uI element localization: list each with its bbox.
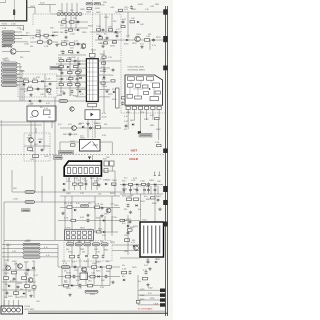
wire (71, 3, 73, 13)
wire (2, 269, 36, 271)
resistor R832 (67, 60, 72, 62)
resistor R814 (104, 42, 108, 44)
wire (15, 35, 59, 37)
input pin label 5 (2, 44, 12, 46)
wire (0, 121, 55, 123)
svg-text:0.01: 0.01 (84, 272, 88, 274)
wire (56, 75, 86, 77)
resistor R833 (59, 66, 64, 68)
yoke label DY (13, 10, 15, 16)
wire (85, 176, 87, 190)
svg-text:0.22: 0.22 (144, 265, 148, 267)
transistor Q805 (134, 246, 139, 251)
wire (57, 245, 59, 267)
svg-text:R402: R402 (52, 32, 57, 34)
board pin right 1 (163, 186, 167, 192)
svg-text:COLD: COLD (129, 157, 139, 161)
wire (39, 30, 41, 44)
bottom bus wire (28, 310, 166, 312)
wire (69, 57, 71, 96)
svg-text:C115: C115 (80, 48, 84, 50)
resistor R808 (70, 43, 75, 45)
resistor R802 (44, 34, 48, 37)
resistor R853 (71, 144, 76, 146)
wire (154, 194, 156, 222)
svg-text:IC601: IC601 (65, 228, 71, 230)
wire (50, 13, 57, 15)
wire (15, 34, 29, 36)
resistor R895 (4, 277, 9, 280)
IC801 block output (150, 97, 159, 101)
transistor Q803 (106, 208, 111, 213)
svg-text:330: 330 (20, 289, 23, 291)
svg-text:R231: R231 (110, 242, 116, 244)
resistor R812 (99, 37, 103, 39)
AV jack pin 3 (23, 252, 40, 255)
fuse F402 (59, 100, 68, 103)
wire (15, 41, 29, 43)
wire (2, 289, 36, 291)
svg-text:CN-F: CN-F (154, 304, 160, 306)
wire (67, 240, 69, 243)
wire (98, 81, 110, 83)
wire (86, 231, 118, 233)
svg-text:R605: R605 (106, 180, 111, 182)
capacitor C818 (74, 59, 77, 63)
wire (60, 27, 88, 29)
wire (75, 15, 77, 28)
wire (120, 14, 122, 113)
resistor R834 (74, 66, 79, 68)
CRT board pin 1 (160, 289, 165, 293)
svg-text:D205: D205 (8, 296, 13, 298)
wire (155, 257, 157, 260)
ground (64, 35, 67, 38)
wire (58, 69, 80, 71)
resistor R887 (93, 255, 98, 258)
svg-text:47u: 47u (70, 95, 73, 97)
wire (133, 110, 135, 121)
wire (71, 196, 73, 232)
IC601 top pin 3 (77, 231, 81, 234)
svg-text:1.2K: 1.2K (155, 142, 160, 144)
bridge box (85, 110, 100, 120)
wire (13, 300, 15, 306)
diode D836 (71, 284, 73, 286)
svg-text:1N41: 1N41 (112, 180, 118, 182)
wire (33, 13, 50, 15)
wire (76, 96, 86, 98)
wire (147, 257, 149, 260)
capacitor C847 (105, 274, 108, 278)
svg-text:R605: R605 (130, 120, 135, 122)
connector strip pin 4 (68, 13, 71, 16)
wire (40, 248, 58, 250)
ground (105, 89, 108, 92)
svg-text:R402: R402 (94, 181, 99, 183)
wire (17, 66, 22, 68)
resistor R811 (109, 29, 113, 31)
svg-text:1.2K: 1.2K (68, 82, 73, 84)
diode D806 (126, 39, 128, 41)
svg-text:2SC: 2SC (73, 18, 78, 20)
wire (74, 176, 76, 190)
svg-text:R812 C815 D811: R812 C815 D811 (63, 134, 77, 136)
connector strip pin 6 (75, 13, 78, 16)
transistor Q205 (29, 138, 34, 143)
svg-text:1N41: 1N41 (140, 201, 146, 203)
svg-text:100: 100 (78, 241, 81, 243)
wire (77, 267, 79, 286)
wire (83, 13, 122, 15)
svg-text:C809: C809 (149, 180, 155, 182)
svg-text:C115: C115 (58, 67, 62, 69)
diode D835 (97, 275, 99, 277)
wire (73, 240, 75, 243)
IC901 pin row 7 (86, 89, 98, 91)
wire (32, 14, 34, 26)
svg-text:R811: R811 (106, 271, 110, 273)
svg-text:R605: R605 (88, 26, 94, 28)
diode D826 (154, 183, 156, 185)
wire (40, 252, 58, 254)
wire (94, 120, 96, 139)
svg-text:330: 330 (28, 135, 31, 137)
net label MAIN (50, 66, 62, 69)
svg-text:0.22: 0.22 (116, 29, 120, 31)
wire (138, 289, 160, 291)
svg-text:R402: R402 (114, 205, 119, 207)
svg-text:1N41: 1N41 (20, 71, 25, 73)
capacitor C816 (78, 83, 81, 87)
spark gap 2 (158, 172, 160, 176)
wire (25, 262, 27, 298)
wire (140, 110, 142, 121)
wire (12, 191, 125, 193)
svg-text:T801: T801 (80, 138, 86, 140)
diode D840 (123, 279, 125, 281)
wire (15, 262, 17, 298)
capacitor C829 (101, 206, 104, 210)
capacitor C802 (65, 29, 68, 33)
transistor Q802 (72, 126, 77, 131)
svg-text:T802: T802 (142, 220, 148, 222)
svg-text:330: 330 (148, 34, 151, 36)
secondary pin 1 (67, 243, 74, 246)
wire (34, 7, 36, 14)
net label PC801 (139, 133, 152, 137)
svg-text:C115: C115 (140, 181, 146, 183)
svg-text:C44: C44 (70, 53, 73, 55)
svg-text:R605: R605 (110, 193, 115, 195)
resistor R889 (107, 266, 112, 269)
svg-text:2SC: 2SC (88, 281, 92, 283)
wire (8, 300, 10, 306)
wire (17, 84, 20, 86)
svg-text:0.22: 0.22 (102, 79, 106, 81)
wire (121, 39, 166, 41)
svg-text:R811: R811 (80, 249, 84, 251)
capacitor C835 (127, 203, 130, 207)
wire (85, 267, 87, 286)
svg-text:R811: R811 (112, 185, 116, 187)
transistor Q801 (135, 36, 140, 41)
wire (120, 193, 163, 195)
wire (78, 240, 80, 243)
wire (103, 246, 105, 255)
IC601 bottom pin 1 (66, 236, 70, 239)
resistor R897 (25, 285, 30, 288)
AV jack pin 4 (23, 256, 40, 259)
wire (138, 304, 160, 306)
svg-text:4.7u: 4.7u (44, 247, 48, 249)
net label H-OUT (22, 209, 31, 212)
svg-text:1.2K: 1.2K (131, 180, 136, 182)
wire (4, 201, 95, 203)
wire (59, 142, 61, 152)
svg-text:47u: 47u (88, 203, 91, 205)
svg-text:D205: D205 (95, 8, 101, 10)
capacitor C850 (13, 277, 16, 281)
wire (33, 262, 35, 298)
svg-text:4.7u: 4.7u (124, 116, 128, 118)
wire (17, 300, 19, 306)
dashed block secondary (64, 241, 112, 262)
capacitor C821 (71, 89, 74, 93)
wire (93, 267, 95, 286)
svg-text:R231: R231 (108, 94, 113, 96)
svg-text:CN402: CN402 (3, 60, 10, 62)
svg-text:330: 330 (64, 281, 67, 283)
wire (34, 121, 36, 192)
svg-text:10K: 10K (60, 25, 64, 27)
svg-text:R811: R811 (146, 199, 150, 201)
resistor R890 (66, 275, 71, 278)
svg-text:C115: C115 (70, 34, 76, 36)
svg-text:10K: 10K (77, 61, 81, 63)
svg-text:R231: R231 (156, 37, 161, 39)
wire (90, 31, 121, 33)
CRT socket top bar (64, 164, 101, 166)
wire (23, 78, 25, 101)
resistor R888 (92, 266, 97, 269)
svg-text:R605: R605 (73, 96, 79, 98)
svg-text:D205: D205 (4, 260, 9, 262)
transistor Q202 (47, 40, 52, 45)
wire (61, 267, 63, 286)
wire (101, 267, 103, 286)
svg-text:330: 330 (82, 252, 85, 254)
wire (41, 176, 43, 202)
svg-text:R605: R605 (64, 41, 69, 43)
transistor Q603 (28, 278, 33, 283)
svg-text:0.22: 0.22 (138, 186, 142, 188)
svg-text:10K: 10K (72, 57, 76, 59)
capacitor C825 (89, 126, 92, 130)
CRT board pin 4 (160, 303, 165, 307)
IC601 bottom pin 3 (77, 236, 81, 239)
diode D808 (41, 80, 43, 82)
board pin right 3 (163, 222, 167, 227)
resistor R838 (59, 84, 64, 86)
svg-text:0.01: 0.01 (90, 241, 94, 243)
wire (40, 256, 58, 258)
resistor R900 (122, 271, 127, 274)
IC801 block latch (153, 83, 160, 88)
svg-text:1.2K: 1.2K (122, 269, 127, 271)
resistor R839 (68, 84, 73, 86)
capacitor C843 (77, 254, 80, 258)
svg-text:IC02: IC02 (74, 30, 78, 32)
diode D810 (29, 100, 31, 102)
resistor R803 (38, 41, 43, 44)
ground (86, 213, 89, 216)
wire (154, 186, 156, 194)
capacitor C824 (125, 124, 128, 128)
capacitor C842 (129, 220, 132, 224)
wire (58, 54, 86, 56)
wire (17, 62, 20, 64)
capacitor C823 (121, 101, 124, 105)
svg-text:R811: R811 (24, 78, 30, 80)
board pin top-right (163, 9, 167, 14)
svg-text:330: 330 (104, 124, 107, 126)
jungle IC901 (86, 59, 98, 102)
wire (111, 166, 113, 171)
capacitor C801 (77, 20, 80, 24)
diode D817 (113, 91, 115, 93)
svg-text:C115: C115 (24, 44, 30, 46)
connector strip pin 5 (71, 13, 74, 16)
wire (152, 110, 154, 121)
svg-text:2SC: 2SC (113, 21, 117, 23)
svg-text:1.2K: 1.2K (2, 28, 7, 30)
IC801 pin 5 (151, 106, 155, 109)
ground (86, 122, 89, 125)
connector strip pin 3 (64, 13, 67, 16)
resistor R831 (59, 60, 64, 62)
wire (114, 171, 116, 185)
capacitor C836 (147, 188, 150, 192)
IC801 block OSC (127, 77, 134, 80)
ground (61, 211, 64, 214)
fusible resistor FR401 (25, 191, 35, 194)
svg-text:2SC: 2SC (101, 280, 106, 282)
wire (137, 275, 139, 305)
wire (4, 240, 64, 242)
capacitor C815 (78, 62, 81, 66)
wire (99, 14, 101, 32)
diode D802 (77, 29, 79, 31)
svg-text:R402: R402 (122, 220, 127, 222)
svg-text:R402: R402 (96, 12, 101, 14)
diode D823 (103, 231, 105, 233)
resistor R906 (88, 103, 97, 107)
resistor R824 (28, 148, 33, 151)
wire (84, 240, 86, 243)
wire (2, 252, 23, 254)
svg-text:2SC: 2SC (136, 245, 140, 247)
svg-text:D205: D205 (112, 99, 117, 101)
main connector pin 6 (2, 80, 18, 83)
svg-text:47u: 47u (138, 281, 141, 283)
wire (58, 21, 88, 23)
CRT socket pin 1 (67, 168, 70, 174)
svg-text:100: 100 (130, 195, 133, 197)
wire (79, 246, 81, 255)
IC901 pin row 5 (86, 80, 98, 82)
svg-text:C809: C809 (57, 95, 63, 97)
capacitor C840 (147, 260, 150, 264)
diode D816 (79, 90, 81, 92)
svg-text:1N41: 1N41 (102, 86, 108, 88)
svg-text:R402: R402 (156, 196, 162, 198)
wire (121, 112, 166, 114)
capacitor C854 (145, 270, 148, 274)
wire (103, 50, 105, 113)
IC801 block comp7 (155, 91, 161, 94)
svg-text:R811: R811 (104, 250, 108, 252)
svg-text:2SC: 2SC (103, 2, 108, 4)
diode D804 (115, 31, 117, 33)
svg-text:0.22: 0.22 (34, 275, 38, 277)
capacitor C814 (41, 148, 44, 152)
resistor R892 (64, 284, 69, 287)
svg-text:1.2K: 1.2K (30, 38, 35, 40)
resistor R890 (136, 300, 140, 303)
wire (87, 120, 89, 139)
IC601 top pin 4 (83, 231, 87, 234)
wire (0, 100, 88, 102)
svg-text:C44: C44 (76, 180, 79, 182)
wire (146, 110, 148, 121)
jumper link J804 (85, 290, 98, 293)
node A (22, 35, 23, 36)
IC901 pin row 2 (86, 67, 98, 69)
wire (114, 185, 116, 196)
speaker connector CN602 (1, 306, 23, 314)
svg-text:47u: 47u (64, 203, 67, 205)
capacitor C838 (157, 198, 160, 202)
capacitor C834 (147, 182, 150, 186)
wire (127, 12, 129, 38)
diode D833 (85, 255, 87, 257)
board pin hot-side (163, 149, 167, 154)
resistor R868 (142, 183, 146, 185)
svg-text:C115: C115 (100, 5, 106, 7)
svg-text:C115: C115 (114, 33, 120, 35)
wire (98, 60, 110, 62)
capacitor C846 (73, 274, 76, 278)
resistor R870 (134, 198, 139, 201)
CRT board outline (0, 25, 23, 30)
wire (51, 121, 53, 128)
resistor R864 (67, 206, 72, 209)
wire (27, 6, 35, 8)
svg-text:C44: C44 (96, 34, 99, 36)
wire (79, 176, 81, 190)
deflection yoke line (13, 0, 15, 21)
resistor R872 (125, 239, 130, 242)
svg-text:IC02: IC02 (94, 249, 98, 251)
wire (149, 40, 151, 50)
svg-text:R231: R231 (96, 271, 101, 273)
secondary pin 5 (101, 243, 108, 246)
svg-text:47u: 47u (28, 291, 31, 293)
wire (60, 195, 120, 197)
capacitor C820 (76, 77, 79, 81)
svg-text:C809: C809 (80, 9, 85, 11)
